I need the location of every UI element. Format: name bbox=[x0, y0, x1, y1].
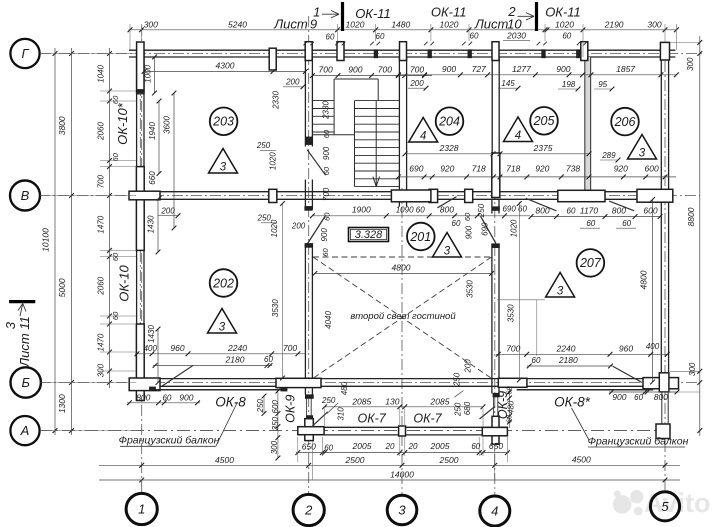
svg-text:201: 201 bbox=[409, 230, 431, 244]
svg-text:8800: 8800 bbox=[686, 207, 696, 226]
svg-text:2180: 2180 bbox=[558, 355, 578, 365]
living room outer rotated dims 3530/4040/3530/3530 bbox=[271, 280, 515, 329]
svg-text:250: 250 bbox=[257, 214, 272, 223]
svg-text:ОК-7: ОК-7 bbox=[357, 412, 386, 426]
cross post at porch left (axis 2 / А) bbox=[298, 419, 324, 441]
svg-text:600: 600 bbox=[271, 400, 280, 414]
svg-text:60: 60 bbox=[562, 31, 571, 40]
dim 4800 room 207 right bbox=[639, 197, 655, 384]
svg-text:1020: 1020 bbox=[440, 20, 459, 30]
room circle 202 bbox=[210, 269, 238, 297]
svg-text:250: 250 bbox=[453, 372, 462, 387]
svg-text:700: 700 bbox=[96, 174, 105, 188]
svg-text:900: 900 bbox=[179, 393, 193, 403]
stair right wall x=398-405 (double line) bbox=[399, 57, 406, 207]
door leaf stair-wall lower bbox=[308, 216, 326, 244]
svg-text:660: 660 bbox=[148, 171, 157, 185]
svg-text:800: 800 bbox=[535, 205, 549, 215]
svg-text:900: 900 bbox=[442, 64, 456, 74]
svg-text:2500: 2500 bbox=[439, 455, 459, 465]
triangle mark 3 (room 202) bbox=[208, 309, 237, 334]
svg-text:900: 900 bbox=[465, 225, 474, 239]
room circle 203 bbox=[210, 108, 238, 136]
svg-text:480: 480 bbox=[340, 381, 349, 395]
svg-text:1300: 1300 bbox=[57, 394, 67, 413]
svg-text:95: 95 bbox=[598, 80, 607, 89]
svg-text:ОК-10: ОК-10 bbox=[117, 264, 132, 301]
posts on wall В bbox=[129, 189, 673, 202]
label Французский балкон left with leader bbox=[119, 402, 238, 447]
triangle mark 3 (room 203) bbox=[209, 149, 238, 174]
posts on wall Б and sills of ОК-8 / ОК-8* bbox=[129, 373, 678, 392]
black caps at lower door jambs bbox=[305, 207, 312, 211]
svg-text:20: 20 bbox=[385, 442, 395, 451]
living-room right wall x=492-499 (double line, door gap) bbox=[492, 199, 499, 393]
svg-text:ОК-10*: ОК-10* bbox=[115, 102, 130, 145]
top 60 mm post dims bbox=[303, 31, 587, 45]
svg-text:20: 20 bbox=[408, 442, 418, 451]
porch window dims 2085/130/2085 bbox=[322, 396, 485, 409]
svg-text:600: 600 bbox=[645, 163, 659, 173]
svg-text:4: 4 bbox=[515, 130, 521, 142]
svg-text:60: 60 bbox=[264, 355, 273, 364]
svg-text:второй свет гостиной: второй свет гостиной bbox=[350, 311, 456, 322]
svg-text:690: 690 bbox=[480, 222, 489, 236]
svg-text:60: 60 bbox=[622, 219, 631, 228]
axis line 4 (vertical dash-dot) bbox=[494, 188, 496, 495]
Avito watermark bbox=[613, 488, 711, 518]
svg-text:5240: 5240 bbox=[228, 20, 247, 30]
svg-text:200: 200 bbox=[464, 359, 473, 374]
window ОК-8 opening diagonal bbox=[161, 365, 193, 386]
svg-text:1020: 1020 bbox=[346, 20, 365, 30]
svg-text:60: 60 bbox=[470, 31, 479, 40]
svg-text:60: 60 bbox=[634, 393, 643, 402]
svg-text:60: 60 bbox=[322, 212, 331, 221]
svg-text:1480: 1480 bbox=[391, 19, 410, 29]
room 203 vertical dims 1000/3600/1940/660/1430 bbox=[144, 55, 177, 385]
svg-text:2: 2 bbox=[304, 503, 313, 518]
axis line 3 (vertical dash-dot) bbox=[401, 188, 403, 495]
partition wall between rooms 205 and 206 bbox=[585, 57, 591, 192]
porch dims 650/60 | 2005/20/20/2005 | 60/650 bbox=[295, 441, 509, 455]
svg-text:14000: 14000 bbox=[390, 470, 414, 480]
svg-text:300: 300 bbox=[647, 19, 661, 29]
svg-text:60: 60 bbox=[322, 129, 331, 138]
svg-text:800: 800 bbox=[654, 392, 668, 402]
axis circle 1 bbox=[126, 493, 157, 524]
svg-text:650: 650 bbox=[302, 442, 316, 452]
svg-text:ОК-8: ОК-8 bbox=[215, 395, 246, 410]
svg-text:60: 60 bbox=[162, 394, 171, 403]
room 202 dims 2180/60 bbox=[153, 355, 274, 368]
window ОК-9 right (jamb caps) bbox=[493, 393, 499, 416]
svg-text:700: 700 bbox=[283, 343, 297, 353]
living room side dim lines 3530 bbox=[280, 201, 545, 382]
svg-text:1430: 1430 bbox=[147, 325, 156, 343]
offset dims 145/198/95/200 bbox=[498, 79, 614, 91]
sheet reference Лист 10 with section mark 2 bbox=[474, 2, 537, 32]
right dimension chain 300/8800/300 bbox=[670, 36, 702, 436]
left wall posts and windows ОК-10* / ОК-10 bbox=[136, 93, 144, 401]
room circle 205 bbox=[530, 107, 558, 135]
svg-text:4800: 4800 bbox=[392, 262, 411, 272]
leader 250 right porch bbox=[454, 391, 463, 398]
svg-text:700: 700 bbox=[319, 65, 333, 75]
svg-text:3: 3 bbox=[398, 503, 406, 518]
triangle mark 3 (room 206) bbox=[628, 135, 657, 160]
svg-text:60: 60 bbox=[111, 152, 120, 161]
svg-text:2330: 2330 bbox=[272, 91, 281, 110]
svg-text:600: 600 bbox=[643, 205, 657, 215]
post at axis 3 on А wall bbox=[399, 426, 406, 436]
cross post at porch right (axis 4 / А) bbox=[482, 416, 507, 444]
svg-text:60: 60 bbox=[322, 166, 331, 175]
svg-text:700: 700 bbox=[506, 344, 520, 354]
svg-text:4800: 4800 bbox=[639, 270, 649, 289]
window end caps on top wall bbox=[374, 50, 580, 58]
svg-text:738: 738 bbox=[566, 163, 580, 173]
svg-text:920: 920 bbox=[614, 163, 628, 173]
svg-text:145: 145 bbox=[501, 79, 515, 88]
svg-text:Б: Б bbox=[21, 375, 30, 390]
svg-text:3: 3 bbox=[3, 321, 18, 329]
bottom dimension row 14000 bbox=[99, 470, 680, 483]
wall along axis В (double line) bbox=[129, 192, 673, 200]
svg-text:1: 1 bbox=[313, 5, 320, 20]
room 206 door dims 60/60 bbox=[558, 219, 636, 228]
svg-text:3.328: 3.328 bbox=[355, 229, 383, 241]
svg-text:130: 130 bbox=[385, 396, 399, 406]
axis line В (horizontal dash-dot) bbox=[39, 195, 700, 197]
svg-text:900: 900 bbox=[556, 64, 570, 74]
svg-text:1170: 1170 bbox=[580, 205, 599, 215]
svg-text:400: 400 bbox=[646, 342, 660, 351]
svg-text:4: 4 bbox=[420, 131, 426, 143]
svg-text:В: В bbox=[21, 188, 30, 203]
svg-text:700: 700 bbox=[322, 187, 331, 201]
svg-text:200: 200 bbox=[160, 207, 175, 216]
room circle 204 bbox=[436, 107, 464, 135]
post at axis 5 / А corner bbox=[656, 424, 670, 439]
svg-text:250: 250 bbox=[454, 402, 463, 417]
axis circle 2 bbox=[293, 494, 324, 525]
left dimension chain total 10100 bbox=[41, 48, 58, 435]
svg-text:718: 718 bbox=[506, 163, 520, 173]
axis circle Г bbox=[10, 39, 39, 68]
second-light cross diagonal 2 bbox=[313, 257, 492, 378]
svg-text:5000: 5000 bbox=[57, 278, 67, 297]
axis circle В bbox=[10, 181, 40, 211]
svg-text:3: 3 bbox=[444, 246, 451, 258]
axis circle 4 bbox=[480, 496, 510, 526]
svg-text:300: 300 bbox=[270, 440, 279, 454]
living room side rotated dims bbox=[320, 203, 518, 256]
svg-text:960: 960 bbox=[170, 343, 184, 353]
svg-text:2085: 2085 bbox=[351, 396, 371, 406]
svg-text:300: 300 bbox=[686, 57, 695, 71]
svg-text:800: 800 bbox=[612, 205, 626, 215]
svg-text:Лист 11: Лист 11 bbox=[17, 316, 32, 368]
svg-text:ОК-7: ОК-7 bbox=[413, 412, 442, 426]
left wall window jamb caps bbox=[137, 90, 144, 329]
svg-text:680: 680 bbox=[463, 401, 472, 415]
svg-text:2005: 2005 bbox=[352, 441, 372, 451]
window ОК-8* opening diagonal bbox=[613, 366, 642, 382]
triangle mark 4 (room 205) bbox=[504, 117, 533, 142]
bottom dimension row 4500/2500/2500/4500 bbox=[99, 455, 680, 468]
door leaf porch ОК-9 left bbox=[312, 412, 328, 427]
svg-text:3: 3 bbox=[557, 286, 564, 298]
left outer wall (double line) bbox=[137, 50, 144, 386]
svg-text:4040: 4040 bbox=[324, 311, 333, 329]
svg-text:250: 250 bbox=[321, 396, 336, 405]
svg-text:ОК-11: ОК-11 bbox=[545, 5, 581, 20]
wall between rooms 204 and 205 (x=492-500) bbox=[492, 57, 500, 198]
top dimension row A bbox=[128, 19, 679, 40]
svg-text:480: 480 bbox=[507, 400, 516, 414]
svg-text:300: 300 bbox=[144, 20, 158, 30]
svg-text:2: 2 bbox=[507, 4, 516, 19]
svg-text:3530: 3530 bbox=[506, 304, 515, 322]
svg-text:1470: 1470 bbox=[96, 215, 105, 233]
svg-text:60: 60 bbox=[463, 212, 472, 221]
svg-text:300: 300 bbox=[96, 363, 105, 377]
svg-text:900: 900 bbox=[320, 228, 329, 242]
triangle mark 4 (room 204) bbox=[409, 118, 438, 143]
svg-text:800: 800 bbox=[440, 205, 454, 215]
svg-text:727: 727 bbox=[472, 64, 486, 74]
svg-text:204: 204 bbox=[438, 115, 460, 129]
svg-text:2005: 2005 bbox=[430, 441, 450, 451]
room 202 dims above Б: 400/960/2240/700 bbox=[135, 343, 306, 356]
svg-text:250: 250 bbox=[256, 141, 271, 150]
top extension lines bbox=[130, 24, 676, 57]
axis circle 3 bbox=[387, 495, 417, 525]
svg-text:202: 202 bbox=[212, 276, 234, 290]
room circle 201 bbox=[407, 223, 435, 251]
svg-text:700: 700 bbox=[378, 65, 392, 75]
svg-text:206: 206 bbox=[614, 115, 636, 129]
svg-text:2060: 2060 bbox=[96, 122, 105, 141]
svg-text:205: 205 bbox=[533, 114, 555, 128]
stair/living-room left wall x=305-312 (double line, door gaps) bbox=[305, 57, 312, 395]
black cap stair-left wall bbox=[305, 137, 312, 145]
stair well and flights bbox=[312, 79, 399, 187]
log posts on top wall bbox=[137, 42, 670, 93]
svg-text:2330: 2330 bbox=[322, 101, 331, 120]
svg-text:60: 60 bbox=[505, 414, 514, 423]
sill feet marks ОК-8 bbox=[150, 387, 288, 391]
svg-text:60: 60 bbox=[324, 444, 333, 453]
svg-text:960: 960 bbox=[619, 344, 633, 354]
svg-text:650: 650 bbox=[489, 441, 503, 451]
window ОК-9 left (jamb caps) bbox=[305, 395, 313, 419]
svg-text:2240: 2240 bbox=[227, 343, 247, 353]
svg-text:2085: 2085 bbox=[430, 396, 450, 406]
window ОК-8 sill line bbox=[150, 389, 283, 391]
dims under ОК-8: 800/60/900 bbox=[127, 393, 200, 406]
room 207 dims above Б: 700/2240/960/400 bbox=[496, 342, 670, 357]
svg-text:60: 60 bbox=[376, 32, 385, 41]
svg-text:200: 200 bbox=[285, 78, 300, 87]
svg-text:1: 1 bbox=[138, 502, 145, 517]
label Французский балкон right with leader bbox=[572, 408, 689, 448]
svg-text:1000: 1000 bbox=[144, 64, 153, 82]
svg-text:350: 350 bbox=[271, 416, 280, 430]
stair vertical dims 2330/60/900/60/700 bbox=[283, 78, 331, 201]
svg-text:4300: 4300 bbox=[216, 61, 235, 71]
axis line Г (horizontal dash-dot) bbox=[40, 53, 702, 55]
svg-text:200: 200 bbox=[291, 221, 306, 230]
svg-text:250: 250 bbox=[477, 203, 486, 218]
porch left vertical dim lines bbox=[262, 387, 281, 460]
svg-text:700: 700 bbox=[410, 65, 424, 75]
svg-text:1857: 1857 bbox=[616, 64, 635, 74]
second-light cross diagonal 1 bbox=[313, 257, 492, 378]
room circle 206 bbox=[611, 108, 639, 136]
svg-text:60: 60 bbox=[111, 95, 120, 104]
svg-text:1040: 1040 bbox=[96, 64, 105, 82]
svg-text:300: 300 bbox=[688, 362, 697, 376]
left wall centreline (dash-dot) bbox=[139, 42, 141, 390]
svg-text:60: 60 bbox=[111, 311, 120, 320]
svg-text:60: 60 bbox=[532, 356, 541, 365]
svg-text:207: 207 bbox=[579, 256, 602, 270]
svg-text:60: 60 bbox=[452, 219, 461, 228]
label 4800 dim inside living room bbox=[312, 262, 494, 276]
svg-text:1020: 1020 bbox=[510, 219, 519, 237]
svg-text:А: А bbox=[20, 423, 30, 438]
svg-text:1900: 1900 bbox=[352, 205, 371, 215]
svg-text:ОК-8*: ОК-8* bbox=[554, 395, 590, 410]
porch right vertical dim line bbox=[507, 388, 512, 428]
axis circle Б bbox=[11, 367, 41, 397]
porch rotated dims left bbox=[256, 381, 349, 454]
svg-text:1940: 1940 bbox=[148, 122, 157, 140]
room circle 207 bbox=[577, 249, 605, 277]
level mark 3.328 (boxed) bbox=[349, 228, 389, 242]
rooms 204-206 top dims 900/727/1277/900/1857 bbox=[396, 57, 695, 77]
dims below В room 207: 60/1170/800/60 bbox=[529, 205, 663, 219]
svg-text:2190: 2190 bbox=[604, 20, 624, 30]
dims below В 1900/1090 60/800/690 60 bbox=[310, 204, 530, 218]
svg-text:200: 200 bbox=[409, 79, 424, 88]
svg-text:ОК-9: ОК-9 bbox=[284, 395, 298, 423]
stair down arrow bbox=[373, 101, 380, 187]
stair top dims 700/900/700/700/200 bbox=[310, 65, 432, 91]
svg-text:4500: 4500 bbox=[572, 455, 591, 465]
dims under ОК-8*: 900/60/800 bbox=[609, 390, 679, 403]
left detail dimension chain bbox=[96, 48, 120, 388]
svg-text:1020: 1020 bbox=[270, 219, 279, 237]
door leaf В wall centre bbox=[437, 197, 456, 208]
svg-text:Французский балкон: Французский балкон bbox=[119, 435, 220, 447]
sheet reference Лист 9 with section mark 1 bbox=[273, 2, 342, 32]
svg-text:4500: 4500 bbox=[215, 455, 234, 465]
door leaf porch ОК-9 right bbox=[480, 407, 495, 420]
sheet reference Лист 11 with section mark 3 (left) bbox=[3, 302, 36, 368]
left extension lines bbox=[40, 54, 136, 431]
svg-text:60: 60 bbox=[567, 206, 576, 215]
rooms 204-206 mid dims 2328/2375 bbox=[403, 143, 592, 156]
svg-text:1470: 1470 bbox=[96, 333, 105, 351]
porch right edge below Б (double line) bbox=[662, 392, 668, 424]
svg-text:60: 60 bbox=[321, 248, 330, 257]
top wall along axis Г (double line) bbox=[129, 50, 675, 57]
svg-text:3: 3 bbox=[639, 148, 646, 160]
svg-text:3: 3 bbox=[219, 322, 226, 334]
svg-text:1020: 1020 bbox=[555, 20, 574, 30]
room 207 dims 60/2180 bbox=[527, 355, 613, 368]
axis line 1 (vertical dash-dot) bbox=[141, 25, 143, 493]
svg-text:2240: 2240 bbox=[556, 344, 576, 354]
svg-text:203: 203 bbox=[212, 115, 234, 129]
svg-text:718: 718 bbox=[472, 163, 486, 173]
svg-text:2030: 2030 bbox=[506, 31, 526, 41]
svg-text:2375: 2375 bbox=[533, 143, 553, 153]
room 203 dim 4300 bbox=[142, 61, 308, 74]
svg-text:1430: 1430 bbox=[147, 215, 156, 233]
svg-text:310: 310 bbox=[337, 407, 346, 421]
svg-text:900: 900 bbox=[348, 65, 362, 75]
svg-text:1090 60: 1090 60 bbox=[396, 206, 425, 215]
svg-text:920: 920 bbox=[440, 163, 454, 173]
svg-text:60: 60 bbox=[505, 385, 514, 394]
svg-text:3530: 3530 bbox=[271, 299, 280, 317]
wall along axis Б (double line) bbox=[129, 379, 679, 387]
door leaf stair-wall upper bbox=[307, 150, 326, 176]
bottom extension lines bbox=[298, 200, 650, 481]
svg-text:900: 900 bbox=[322, 146, 331, 160]
svg-text:2328: 2328 bbox=[439, 143, 459, 153]
svg-text:10100: 10100 bbox=[41, 228, 51, 252]
svg-text:2060: 2060 bbox=[96, 276, 105, 295]
svg-text:Французский балкон: Французский балкон bbox=[588, 436, 689, 448]
axis line Б (horizontal dash-dot) bbox=[40, 382, 700, 384]
window ОК-8* sill line bbox=[517, 389, 654, 391]
svg-text:1277: 1277 bbox=[512, 64, 531, 74]
triangle mark 3 (room 207) bbox=[546, 273, 575, 298]
left dimension chain 3800/5000/1300 bbox=[57, 48, 74, 435]
axis circle 5 bbox=[650, 492, 679, 521]
svg-text:3800: 3800 bbox=[57, 116, 67, 135]
svg-text:3530: 3530 bbox=[466, 280, 475, 298]
svg-text:800: 800 bbox=[136, 393, 150, 403]
svg-text:2500: 2500 bbox=[345, 455, 365, 465]
porch wall along axis А with windows ОК-7 (double line) bbox=[298, 427, 508, 435]
svg-text:3600: 3600 bbox=[163, 116, 172, 134]
triangle mark 3 (room 201) bbox=[433, 233, 462, 258]
svg-text:Г: Г bbox=[21, 46, 29, 61]
svg-text:900: 900 bbox=[612, 392, 626, 402]
svg-text:690: 690 bbox=[409, 163, 423, 173]
dims left of stair wall 2330/250/1020/200 bbox=[158, 91, 306, 238]
svg-text:198: 198 bbox=[562, 80, 576, 89]
axis line 5 / right wall centreline (vertical dash-dot) bbox=[664, 42, 666, 490]
door leaf room 207 left bbox=[526, 198, 557, 211]
svg-text:3: 3 bbox=[220, 162, 227, 174]
svg-text:2180: 2180 bbox=[225, 355, 245, 365]
svg-text:60: 60 bbox=[326, 32, 335, 41]
svg-text:1020: 1020 bbox=[269, 152, 278, 170]
rooms 204-206 lower dims 690/920/718/718/920/738/920/600 bbox=[396, 151, 676, 180]
axis line 2 (vertical dash-dot) bbox=[308, 16, 310, 494]
svg-text:ОК-11: ОК-11 bbox=[431, 5, 467, 20]
right outer wall (double line) bbox=[661, 50, 668, 386]
svg-text:690 60: 690 60 bbox=[502, 204, 527, 213]
svg-text:5: 5 bbox=[661, 499, 669, 514]
